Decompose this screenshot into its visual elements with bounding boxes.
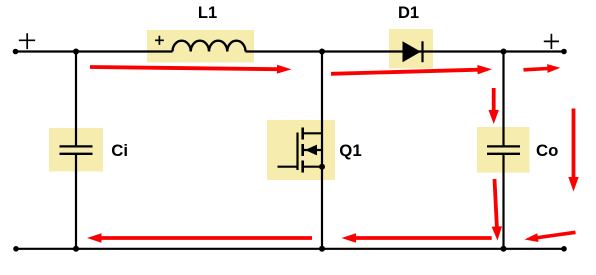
wire top rail left <box>16 50 173 52</box>
inductor L1 coil <box>173 41 246 52</box>
wire left vertical (Ci branch) <box>75 52 77 250</box>
svg-text:Co: Co <box>536 141 558 160</box>
wire top rail right <box>246 50 565 52</box>
junction: Q1 source/body <box>319 164 325 170</box>
svg-text:D1: D1 <box>398 4 419 22</box>
svg-text:Q1: Q1 <box>339 141 361 160</box>
current flow arrow: bottom rail to input (left) <box>87 233 312 242</box>
node: input terminal top <box>13 49 19 55</box>
node: output terminal top <box>561 49 567 55</box>
junction: Co top <box>501 49 507 55</box>
polarity + input <box>19 33 35 49</box>
capacitor Co highlight <box>477 127 530 173</box>
transistor Q1 (N-MOSFET) <box>278 128 323 173</box>
current flow arrow: return from load (left) <box>525 231 576 243</box>
diode D1 highlight <box>389 29 433 68</box>
capacitor Ci highlight <box>49 128 103 171</box>
junction: Co bottom <box>501 246 507 252</box>
transistor Q1 highlight <box>267 120 335 180</box>
polarity + output <box>544 34 559 49</box>
current flow arrow: to output terminal (right) <box>523 64 560 73</box>
junction: Q1 source at bottom rail <box>319 246 325 252</box>
junction: Q1 drain at top rail <box>319 49 325 55</box>
node: input terminal bottom <box>13 246 19 252</box>
current flow arrow: input to L1 (right) <box>90 65 292 74</box>
wire Q1 vertical rail <box>321 52 323 250</box>
diode D1 <box>403 41 423 62</box>
current flow arrow: bottom rail to Q1 (left) <box>342 233 492 242</box>
wire Co vertical rail <box>502 52 504 250</box>
capacitor Ci <box>60 146 93 153</box>
capacitor Co <box>487 146 520 153</box>
polarity + inductor <box>155 36 164 45</box>
current flow arrow: into Co top (down) <box>489 88 499 124</box>
current flow arrow: load current (down, tall) <box>568 109 578 192</box>
inductor L1 highlight <box>147 30 254 62</box>
svg-text:Ci: Ci <box>111 141 128 160</box>
wire bottom rail <box>16 248 564 250</box>
svg-text:L1: L1 <box>198 4 217 22</box>
junction: Ci top <box>73 49 79 55</box>
node: output terminal bottom <box>561 246 567 252</box>
current flow arrow: out of Co bottom (down) <box>492 179 502 241</box>
junction: Ci bottom <box>73 246 79 252</box>
current flow arrow: switch node to output (right) <box>331 65 492 76</box>
